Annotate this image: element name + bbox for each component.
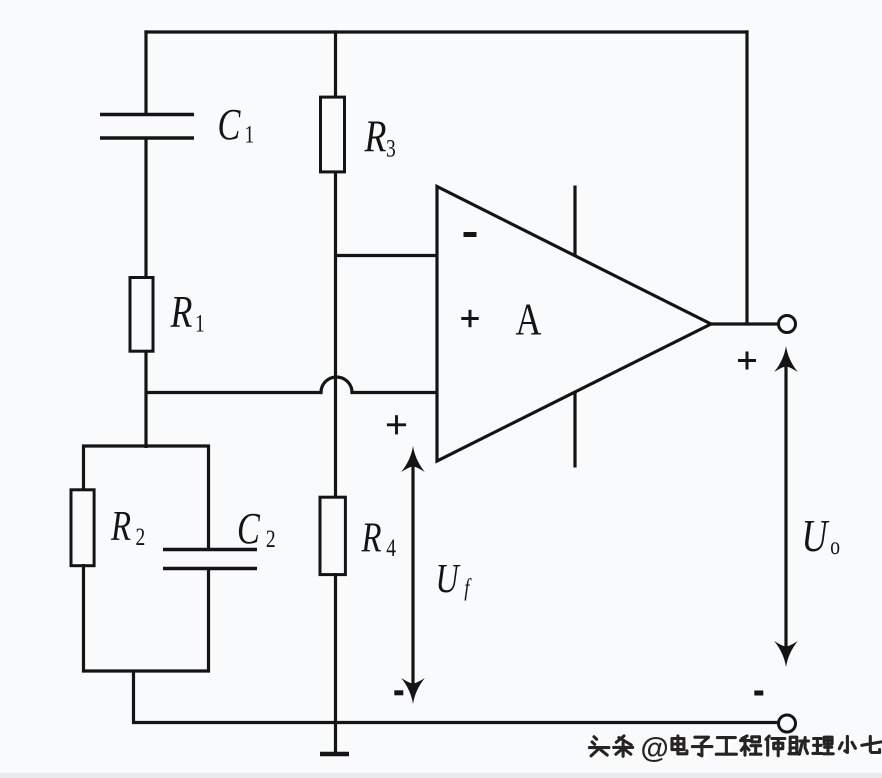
- svg-text:R: R: [364, 110, 387, 161]
- svg-text:C: C: [218, 100, 241, 149]
- svg-text:4: 4: [386, 534, 396, 562]
- svg-text:U: U: [436, 555, 461, 601]
- svg-text:R: R: [110, 503, 131, 550]
- svg-text:A: A: [516, 293, 542, 344]
- svg-text:2: 2: [136, 523, 146, 551]
- svg-text:1: 1: [244, 120, 254, 148]
- svg-text:o: o: [830, 532, 840, 560]
- svg-text:2: 2: [266, 525, 276, 553]
- svg-text:C: C: [237, 504, 260, 553]
- svg-text:R: R: [170, 286, 193, 337]
- svg-text:@: @: [641, 733, 669, 765]
- svg-text:3: 3: [386, 134, 396, 162]
- svg-text:R: R: [361, 515, 382, 562]
- svg-text:1: 1: [195, 309, 205, 337]
- svg-text:U: U: [802, 510, 831, 561]
